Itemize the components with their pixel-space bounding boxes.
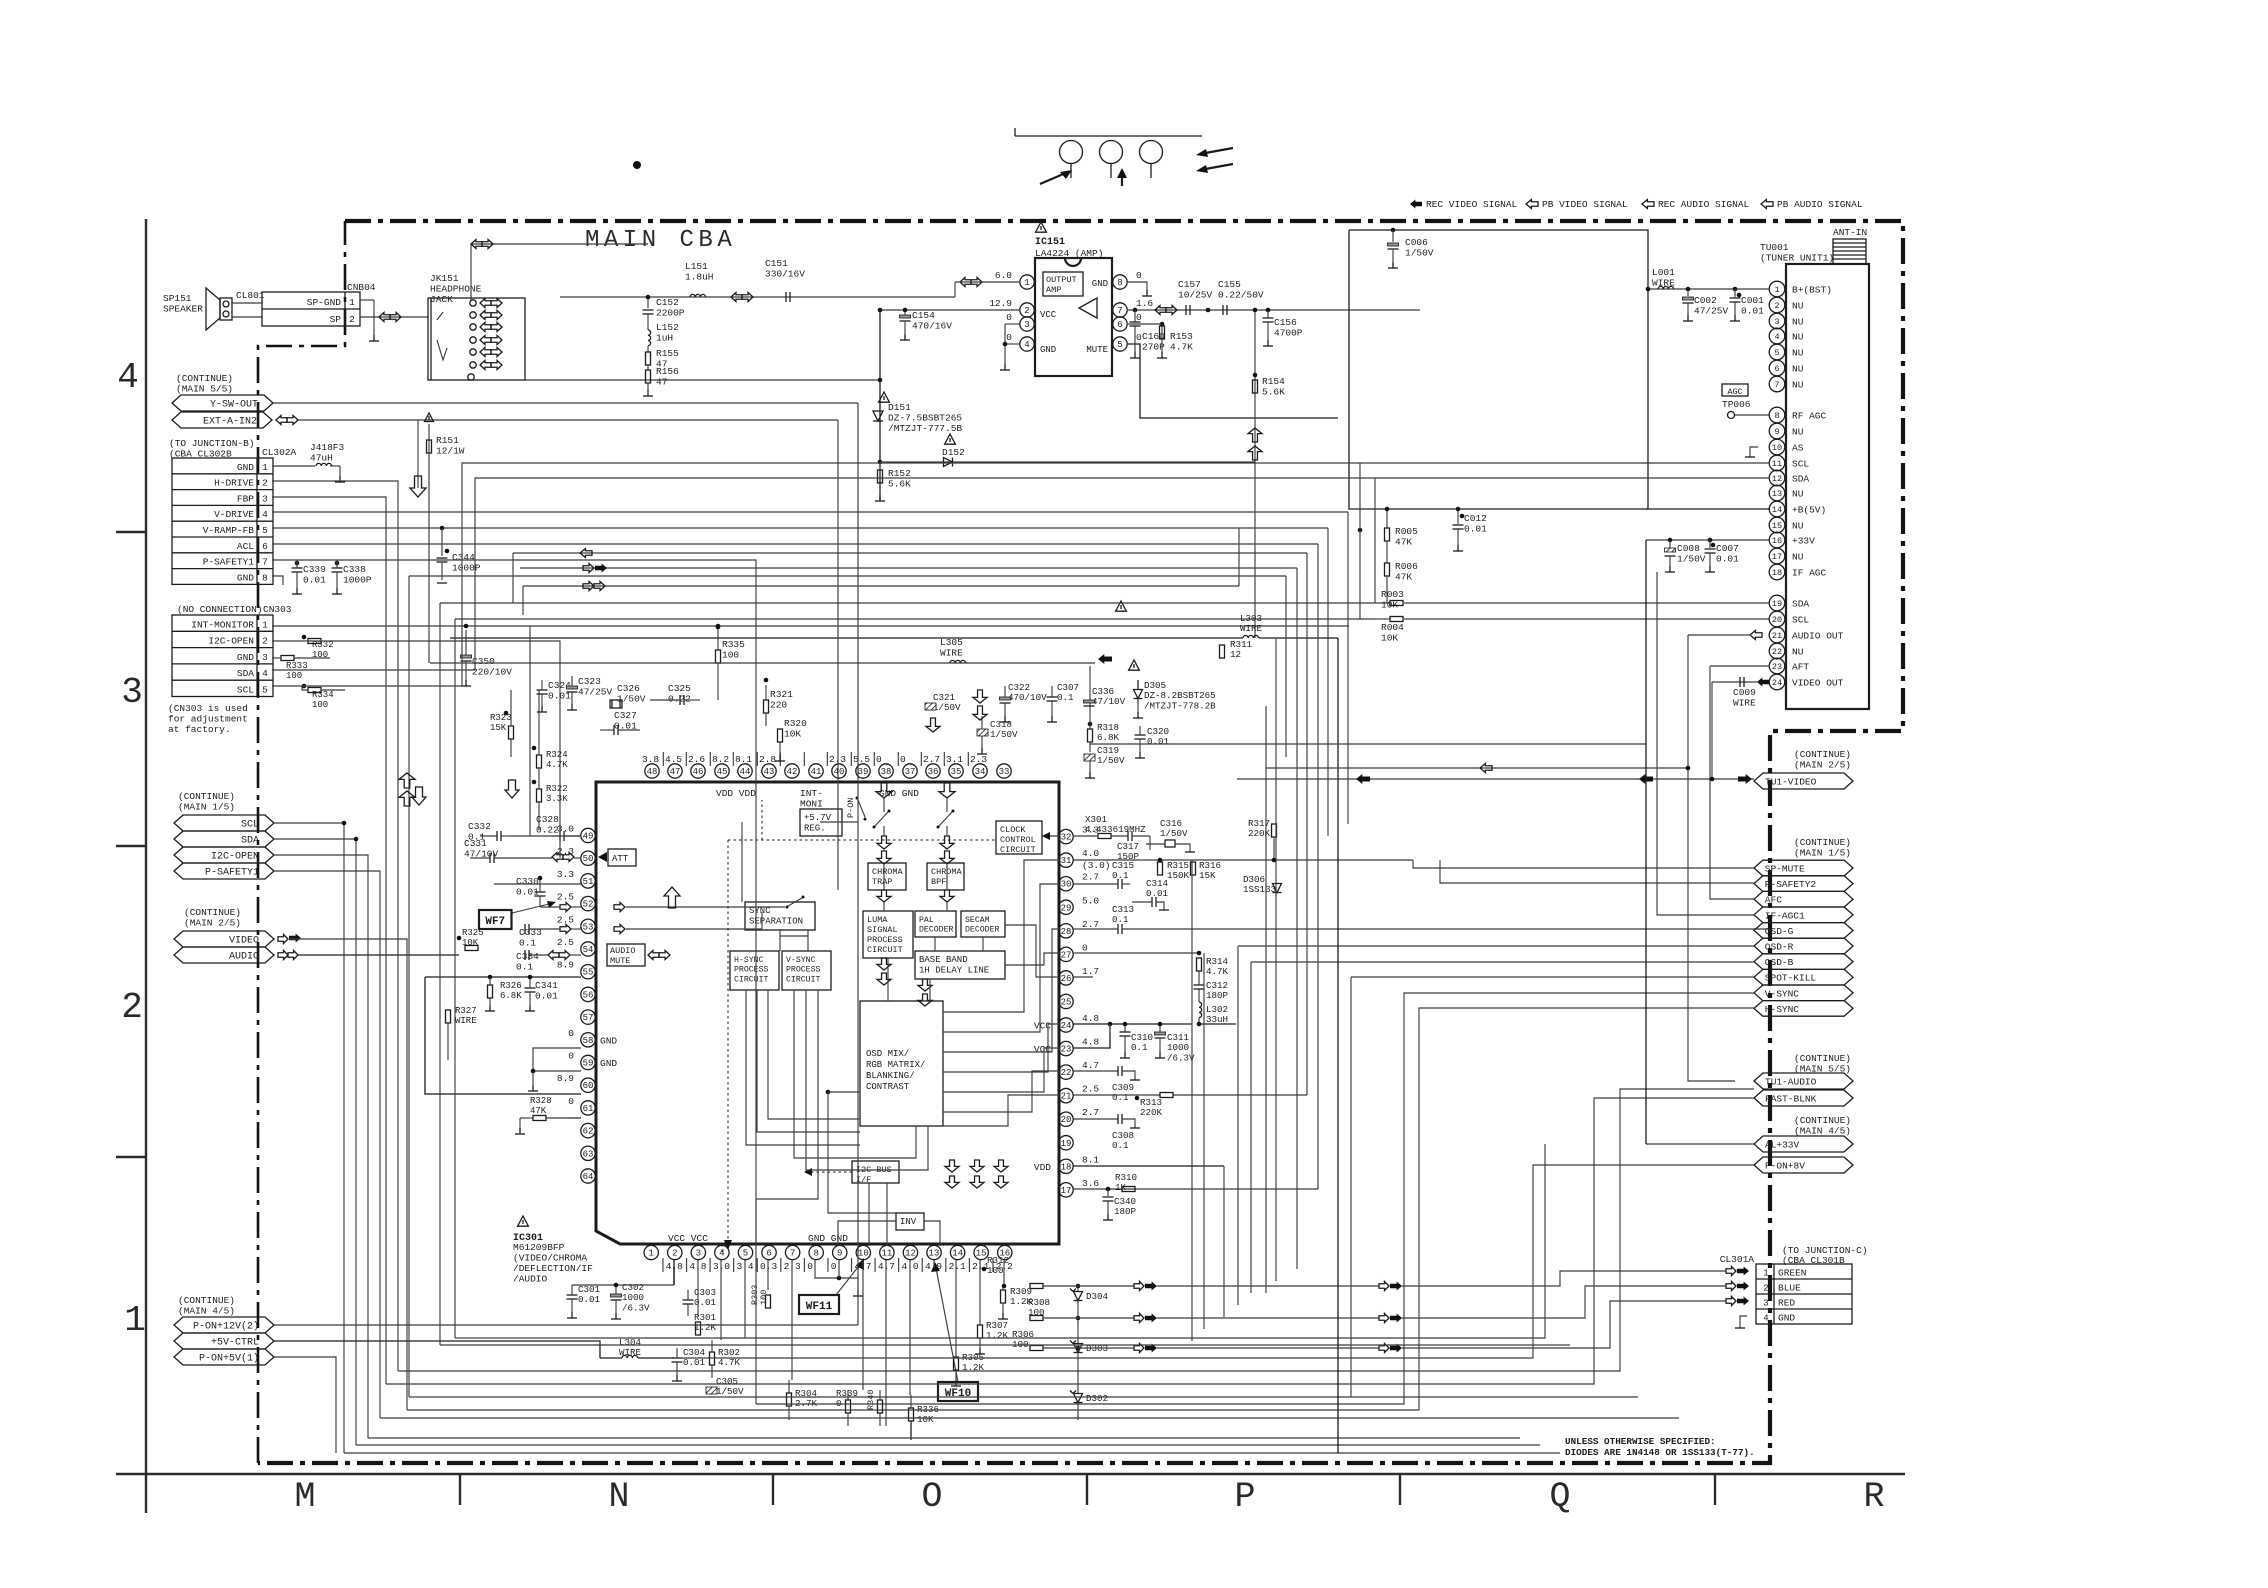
svg-text:FAST-BLNK: FAST-BLNK [1765, 1094, 1817, 1105]
svg-text:100: 100 [759, 1290, 769, 1305]
svg-text:BPF: BPF [931, 877, 946, 887]
svg-text:0.01: 0.01 [683, 1357, 706, 1368]
svg-text:D304: D304 [1086, 1291, 1109, 1302]
svg-text:0: 0 [900, 754, 906, 765]
svg-text:R004: R004 [1381, 622, 1404, 633]
svg-text:AUDIO: AUDIO [610, 946, 636, 956]
svg-text:3.8: 3.8 [642, 754, 659, 765]
svg-text:5.5: 5.5 [853, 754, 870, 765]
svg-text:40: 40 [834, 767, 845, 777]
svg-text:470/10V: 470/10V [1008, 692, 1047, 703]
svg-text:SDA: SDA [237, 668, 254, 679]
svg-text:IF AGC: IF AGC [1792, 568, 1827, 579]
svg-text:26: 26 [1061, 974, 1072, 984]
svg-text:180P: 180P [1206, 990, 1229, 1001]
svg-text:60: 60 [583, 1081, 594, 1091]
svg-text:36: 36 [928, 767, 939, 777]
svg-text:RED: RED [1778, 1298, 1795, 1309]
svg-text:R328: R328 [530, 1096, 552, 1106]
svg-text:15: 15 [976, 1249, 987, 1259]
svg-text:47/25V: 47/25V [1694, 306, 1729, 317]
svg-text:R151: R151 [436, 435, 459, 446]
svg-text:OSD-G: OSD-G [1765, 926, 1794, 937]
svg-text:4.5: 4.5 [665, 754, 682, 765]
svg-text:CIRCUIT: CIRCUIT [734, 975, 768, 984]
svg-text:1: 1 [648, 1249, 653, 1259]
svg-text:(NO CONNECTION): (NO CONNECTION) [177, 604, 263, 615]
svg-text:10K: 10K [1381, 600, 1398, 611]
svg-text:AFT: AFT [1792, 662, 1809, 673]
svg-text:CL301A: CL301A [1720, 1254, 1755, 1265]
svg-text:PROCESS: PROCESS [734, 966, 768, 975]
svg-text:10K: 10K [784, 729, 801, 740]
svg-text:for adjustment: for adjustment [168, 714, 248, 725]
svg-text:(MAIN 2/5): (MAIN 2/5) [184, 918, 241, 929]
svg-text:1/50V: 1/50V [1097, 755, 1125, 766]
svg-text:0: 0 [876, 754, 882, 765]
svg-text:R335: R335 [722, 639, 745, 650]
svg-text:20: 20 [1772, 615, 1782, 625]
svg-text:C002: C002 [1694, 295, 1717, 306]
svg-text:C009: C009 [1733, 687, 1756, 698]
svg-text:54: 54 [583, 945, 594, 955]
svg-text:MONI: MONI [800, 799, 823, 810]
svg-text:L305: L305 [940, 637, 963, 648]
svg-text:47: 47 [656, 377, 667, 388]
svg-text:10: 10 [1772, 443, 1782, 453]
svg-text:R005: R005 [1395, 526, 1418, 537]
svg-text:R322: R322 [546, 784, 568, 794]
svg-text:0.1: 0.1 [1112, 1140, 1129, 1151]
svg-text:23: 23 [1061, 1045, 1072, 1055]
svg-text:12: 12 [1772, 474, 1782, 484]
svg-text:AL+33V: AL+33V [1765, 1140, 1800, 1151]
svg-text:0: 0 [1136, 270, 1142, 281]
svg-text:R340: R340 [866, 1390, 876, 1410]
svg-text:2: 2 [262, 636, 268, 647]
svg-text:OUTPUT: OUTPUT [1046, 275, 1077, 285]
svg-text:P-ON+5V(1): P-ON+5V(1) [199, 1353, 259, 1365]
svg-text:NU: NU [1792, 427, 1804, 438]
svg-text:PB AUDIO SIGNAL: PB AUDIO SIGNAL [1777, 199, 1863, 210]
svg-text:GND GND: GND GND [808, 1233, 848, 1244]
svg-text:(MAIN 1/5): (MAIN 1/5) [178, 802, 235, 813]
svg-text:48: 48 [647, 767, 658, 777]
svg-text:3: 3 [696, 1249, 701, 1259]
svg-text:43: 43 [764, 767, 775, 777]
svg-text:SPEAKER: SPEAKER [163, 304, 203, 315]
svg-text:220K: 220K [1140, 1107, 1163, 1118]
svg-text:2: 2 [1763, 1284, 1768, 1294]
svg-text:3: 3 [1774, 317, 1779, 327]
svg-text:1: 1 [262, 462, 268, 473]
svg-text:57: 57 [583, 1013, 594, 1023]
svg-text:CONTRAST: CONTRAST [866, 1082, 910, 1092]
svg-text:11: 11 [881, 1249, 892, 1259]
svg-text:15: 15 [1772, 521, 1782, 531]
svg-text:4.0: 4.0 [1082, 848, 1099, 859]
svg-text:VDD VDD: VDD VDD [716, 788, 756, 799]
svg-text:C006: C006 [1405, 237, 1428, 248]
svg-text:2.6: 2.6 [688, 754, 705, 765]
svg-text:14: 14 [1772, 505, 1782, 515]
svg-text:AMP: AMP [1046, 285, 1061, 295]
svg-text:47K: 47K [1395, 537, 1412, 548]
svg-text:47K: 47K [530, 1106, 547, 1116]
svg-text:GND: GND [237, 572, 254, 583]
svg-text:5: 5 [262, 685, 268, 696]
svg-text:180P: 180P [1114, 1206, 1137, 1217]
svg-text:19: 19 [1061, 1139, 1072, 1149]
svg-text:(CN303 is used: (CN303 is used [168, 703, 248, 714]
svg-text:7: 7 [1117, 306, 1122, 316]
svg-text:2: 2 [121, 987, 143, 1028]
svg-text:(TO JUNCTION-B): (TO JUNCTION-B) [169, 438, 255, 449]
svg-text:/MTZJT-777.5B: /MTZJT-777.5B [888, 423, 962, 434]
svg-text:SP-MUTE: SP-MUTE [1765, 864, 1805, 875]
svg-text:42: 42 [787, 767, 798, 777]
svg-text:(CONTINUE): (CONTINUE) [1794, 1115, 1851, 1126]
svg-text:0.01: 0.01 [535, 991, 558, 1002]
svg-text:6: 6 [766, 1249, 771, 1259]
svg-text:R153: R153 [1170, 331, 1193, 342]
svg-text:1/50V: 1/50V [716, 1386, 744, 1397]
svg-text:OSD-B: OSD-B [1765, 957, 1794, 968]
svg-text:22: 22 [1061, 1068, 1072, 1078]
svg-text:P-ON+12V(2): P-ON+12V(2) [193, 1321, 259, 1333]
svg-text:0.01: 0.01 [1147, 736, 1170, 747]
svg-text:SP: SP [330, 314, 342, 325]
svg-text:(CONTINUE): (CONTINUE) [1794, 837, 1851, 848]
svg-text:(MAIN 5/5): (MAIN 5/5) [176, 384, 233, 395]
svg-text:R320: R320 [784, 718, 807, 729]
svg-text:61: 61 [583, 1104, 594, 1114]
svg-text:35: 35 [951, 767, 962, 777]
svg-text:1/50V: 1/50V [933, 702, 961, 713]
svg-text:SP-GND: SP-GND [307, 297, 342, 308]
svg-text:30: 30 [1061, 880, 1072, 890]
svg-text:1: 1 [1774, 285, 1779, 295]
svg-text:INT-: INT- [800, 788, 823, 799]
svg-text:34: 34 [975, 767, 986, 777]
svg-text:1.2K: 1.2K [986, 1330, 1009, 1341]
svg-text:ATT: ATT [612, 854, 629, 864]
svg-text:2.7: 2.7 [1082, 1107, 1099, 1118]
svg-text:/6.3V: /6.3V [1167, 1052, 1195, 1063]
svg-text:0: 0 [568, 1051, 574, 1062]
svg-text:58: 58 [583, 1036, 594, 1046]
svg-text:1: 1 [349, 297, 355, 308]
svg-text:0.01: 0.01 [1464, 524, 1487, 535]
svg-text:13: 13 [929, 1249, 940, 1259]
svg-text:62: 62 [583, 1127, 594, 1137]
svg-text:0: 0 [568, 1028, 574, 1039]
svg-text:1000P: 1000P [343, 575, 372, 586]
svg-text:3.6: 3.6 [1082, 1178, 1099, 1189]
svg-text:(CONTINUE): (CONTINUE) [1794, 1053, 1851, 1064]
svg-text:0.3: 0.3 [760, 1261, 777, 1272]
svg-text:UNLESS OTHERWISE SPECIFIED:: UNLESS OTHERWISE SPECIFIED: [1565, 1436, 1716, 1447]
svg-text:0.22: 0.22 [536, 825, 559, 836]
svg-text:(CONTINUE): (CONTINUE) [176, 373, 233, 384]
svg-text:/MTZJT-778.2B: /MTZJT-778.2B [1144, 700, 1216, 711]
svg-text:8.2: 8.2 [712, 754, 729, 765]
svg-text:4: 4 [262, 509, 268, 520]
svg-text:2200P: 2200P [656, 308, 685, 319]
svg-text:MAIN CBA: MAIN CBA [585, 227, 736, 254]
svg-text:0.1: 0.1 [1112, 914, 1129, 925]
svg-text:C008: C008 [1677, 543, 1700, 554]
svg-text:R324: R324 [546, 750, 568, 760]
svg-text:L001: L001 [1652, 267, 1675, 278]
svg-text:P: P [1234, 1477, 1255, 1517]
svg-text:0: 0 [1006, 332, 1012, 343]
svg-text:3.0: 3.0 [713, 1261, 730, 1272]
svg-text:P-ON: P-ON [846, 798, 856, 818]
svg-text:O: O [921, 1477, 942, 1517]
svg-text:GND: GND [1040, 345, 1056, 355]
svg-text:8: 8 [262, 572, 268, 583]
svg-text:1: 1 [124, 1300, 146, 1341]
svg-text:TP006: TP006 [1722, 399, 1751, 410]
svg-text:HEADPHONE: HEADPHONE [430, 284, 482, 295]
svg-text:470/16V: 470/16V [912, 321, 952, 332]
svg-text:1/50V: 1/50V [617, 694, 646, 705]
svg-text:B+(BST): B+(BST) [1792, 285, 1832, 296]
svg-text:12: 12 [1230, 649, 1241, 660]
svg-text:NU: NU [1792, 521, 1804, 532]
svg-text:64: 64 [583, 1172, 594, 1182]
svg-text:0.01: 0.01 [578, 1294, 601, 1305]
svg-text:56: 56 [583, 990, 594, 1000]
svg-text:2.5: 2.5 [1082, 1084, 1099, 1095]
svg-text:1/50V: 1/50V [1677, 554, 1706, 565]
svg-text:8.1: 8.1 [735, 754, 752, 765]
svg-text:0.01: 0.01 [1146, 888, 1169, 899]
svg-text:28: 28 [1061, 927, 1072, 937]
svg-text:C151: C151 [765, 258, 788, 269]
svg-text:6.8K: 6.8K [1097, 732, 1120, 743]
svg-text:C332: C332 [468, 821, 491, 832]
svg-text:GND: GND [600, 1035, 617, 1046]
svg-text:NU: NU [1792, 332, 1804, 343]
svg-text:+B(5V): +B(5V) [1792, 505, 1826, 516]
svg-text:SDA: SDA [1792, 599, 1809, 610]
svg-text:1: 1 [1763, 1269, 1768, 1279]
svg-text:4.7K: 4.7K [546, 760, 568, 770]
svg-text:55: 55 [583, 968, 594, 978]
svg-text:4700P: 4700P [1274, 328, 1303, 339]
svg-text:0.1: 0.1 [1112, 1092, 1129, 1103]
svg-text:CHROMA: CHROMA [872, 867, 904, 877]
svg-text:1H DELAY LINE: 1H DELAY LINE [919, 966, 989, 976]
svg-text:M: M [294, 1477, 315, 1517]
svg-text:MUTE: MUTE [1086, 345, 1108, 355]
svg-text:47/10V: 47/10V [1092, 696, 1126, 707]
svg-text:DIODES ARE 1N4148 OR 1SS133(T-: DIODES ARE 1N4148 OR 1SS133(T-77). [1565, 1447, 1755, 1458]
svg-text:7: 7 [1774, 380, 1779, 390]
svg-text:0: 0 [1006, 312, 1012, 323]
svg-text:R: R [1863, 1477, 1884, 1517]
svg-text:H-SYNC: H-SYNC [1765, 1004, 1800, 1015]
svg-text:4.7K: 4.7K [1206, 966, 1229, 977]
svg-text:2: 2 [672, 1249, 677, 1259]
svg-text:4.7K: 4.7K [1170, 342, 1193, 353]
svg-text:C339: C339 [303, 564, 326, 575]
svg-text:J418F3: J418F3 [310, 442, 345, 453]
svg-text:7: 7 [790, 1249, 795, 1259]
svg-text:V-DRIVE: V-DRIVE [214, 509, 254, 520]
svg-text:5.0: 5.0 [1082, 895, 1099, 906]
svg-text:SIGNAL: SIGNAL [867, 925, 898, 935]
svg-text:R152: R152 [888, 468, 911, 479]
svg-text:CLOCK: CLOCK [1000, 825, 1026, 835]
svg-text:18: 18 [1772, 568, 1782, 578]
svg-text:C338: C338 [343, 564, 366, 575]
svg-text:47: 47 [670, 767, 681, 777]
svg-text:5: 5 [262, 525, 268, 536]
svg-text:/6.3V: /6.3V [622, 1302, 650, 1313]
svg-text:V-SYNC: V-SYNC [786, 956, 816, 965]
svg-text:R327: R327 [455, 1006, 477, 1016]
svg-text:TU001: TU001 [1760, 242, 1789, 253]
svg-text:TU1-AUDIO: TU1-AUDIO [1765, 1077, 1817, 1088]
svg-text:0.22/50V: 0.22/50V [1218, 290, 1264, 301]
svg-text:27: 27 [1061, 950, 1072, 960]
svg-text:SP151: SP151 [163, 293, 192, 304]
svg-text:1: 1 [1024, 278, 1029, 288]
svg-text:5.6K: 5.6K [888, 479, 911, 490]
svg-text:2.7: 2.7 [923, 754, 940, 765]
svg-text:20: 20 [1061, 1115, 1072, 1125]
svg-text:C326: C326 [617, 683, 640, 694]
svg-text:10: 10 [858, 1249, 869, 1259]
svg-text:14: 14 [952, 1249, 963, 1259]
svg-text:63: 63 [583, 1149, 594, 1159]
svg-text:2.1: 2.1 [949, 1261, 966, 1272]
svg-text:GND: GND [600, 1058, 617, 1069]
svg-text:6: 6 [1774, 364, 1779, 374]
svg-text:NU: NU [1792, 489, 1804, 500]
svg-text:1.8uH: 1.8uH [685, 272, 714, 283]
svg-text:53: 53 [583, 922, 594, 932]
svg-text:37: 37 [905, 767, 916, 777]
svg-text:WIRE: WIRE [455, 1016, 477, 1026]
svg-text:4.7K: 4.7K [718, 1357, 741, 1368]
svg-text:1: 1 [262, 619, 268, 630]
svg-text:(CONTINUE): (CONTINUE) [178, 791, 235, 802]
svg-text:C334: C334 [516, 951, 539, 962]
svg-text:D151: D151 [888, 402, 911, 413]
svg-text:9: 9 [1774, 427, 1779, 437]
svg-text:(MAIN 1/5): (MAIN 1/5) [1794, 848, 1851, 859]
svg-text:100: 100 [722, 650, 739, 661]
svg-text:C328: C328 [536, 814, 559, 825]
svg-text:19: 19 [1772, 599, 1782, 609]
svg-text:7: 7 [262, 557, 268, 568]
svg-text:2.8: 2.8 [759, 754, 776, 765]
svg-text:/AUDIO: /AUDIO [513, 1274, 548, 1285]
svg-text:6: 6 [1117, 320, 1122, 330]
svg-text:CIRCUIT: CIRCUIT [1000, 845, 1036, 855]
svg-text:C154: C154 [912, 310, 935, 321]
svg-text:JACK: JACK [430, 294, 453, 305]
svg-text:EXT-A-IN2: EXT-A-IN2 [203, 417, 257, 428]
svg-text:0.1: 0.1 [1131, 1042, 1148, 1053]
svg-text:CONTROL: CONTROL [1000, 835, 1036, 845]
svg-text:47K: 47K [1395, 572, 1412, 583]
svg-text:5: 5 [743, 1249, 748, 1259]
svg-text:0.01: 0.01 [694, 1297, 717, 1308]
svg-text:SCL: SCL [1792, 459, 1809, 470]
svg-text:32: 32 [1061, 833, 1072, 843]
svg-text:PROCESS: PROCESS [786, 966, 820, 975]
svg-text:16: 16 [1772, 536, 1782, 546]
svg-text:OSD-R: OSD-R [1765, 942, 1794, 953]
svg-text:NU: NU [1792, 317, 1804, 328]
svg-text:1SS133: 1SS133 [1243, 884, 1276, 895]
svg-text:11: 11 [1772, 459, 1782, 469]
svg-text:TRAP: TRAP [872, 877, 892, 887]
svg-text:8: 8 [1117, 278, 1122, 288]
svg-text:(MAIN 4/5): (MAIN 4/5) [1794, 1126, 1851, 1137]
svg-text:150K: 150K [1167, 870, 1190, 881]
svg-text:CN303: CN303 [263, 604, 292, 615]
svg-text:41: 41 [811, 767, 822, 777]
svg-text:4.8: 4.8 [1082, 1037, 1099, 1048]
svg-text:2.5: 2.5 [557, 892, 574, 903]
svg-text:18: 18 [1061, 1162, 1072, 1172]
svg-text:3: 3 [262, 652, 268, 663]
svg-text:24: 24 [1772, 678, 1782, 688]
svg-text:P-SAFETY1: P-SAFETY1 [203, 557, 255, 568]
svg-text:REC AUDIO SIGNAL: REC AUDIO SIGNAL [1658, 199, 1750, 210]
svg-text:AUDIO OUT: AUDIO OUT [1792, 631, 1844, 642]
svg-text:8: 8 [1774, 411, 1779, 421]
svg-text:P-SAFETY1: P-SAFETY1 [205, 868, 259, 879]
svg-text:REG.: REG. [804, 824, 826, 834]
svg-text:N: N [608, 1477, 629, 1517]
svg-text:44: 44 [740, 767, 751, 777]
svg-text:3.1: 3.1 [946, 754, 963, 765]
svg-text:15K: 15K [1199, 870, 1216, 881]
svg-text:12.9: 12.9 [989, 298, 1012, 309]
svg-text:(MAIN 2/5): (MAIN 2/5) [1794, 760, 1851, 771]
svg-text:GND: GND [1778, 1313, 1795, 1324]
svg-text:at factory.: at factory. [168, 724, 231, 735]
svg-text:LUMA: LUMA [867, 915, 888, 925]
svg-text:25: 25 [1061, 997, 1072, 1007]
svg-text:6: 6 [262, 541, 268, 552]
svg-text:C007: C007 [1716, 543, 1739, 554]
svg-text:PB VIDEO SIGNAL: PB VIDEO SIGNAL [1542, 199, 1628, 210]
svg-text:(VIDEO/CHROMA: (VIDEO/CHROMA [513, 1253, 587, 1264]
svg-text:59: 59 [583, 1059, 594, 1069]
svg-text:17: 17 [1061, 1186, 1072, 1196]
svg-text:AS: AS [1792, 443, 1804, 454]
svg-text:9: 9 [837, 1249, 842, 1259]
svg-text:RGB MATRIX/: RGB MATRIX/ [866, 1060, 925, 1070]
svg-text:P-SAFETY2: P-SAFETY2 [1765, 879, 1817, 890]
svg-text:SECAM: SECAM [965, 916, 990, 925]
svg-text:4: 4 [1763, 1314, 1768, 1324]
svg-text:C157: C157 [1178, 279, 1201, 290]
svg-text:IF-AGC1: IF-AGC1 [1765, 910, 1805, 921]
svg-text:R155: R155 [656, 348, 679, 359]
svg-text:WF11: WF11 [806, 1301, 833, 1313]
svg-text:R321: R321 [770, 689, 793, 700]
svg-text:CIRCUIT: CIRCUIT [786, 975, 820, 984]
